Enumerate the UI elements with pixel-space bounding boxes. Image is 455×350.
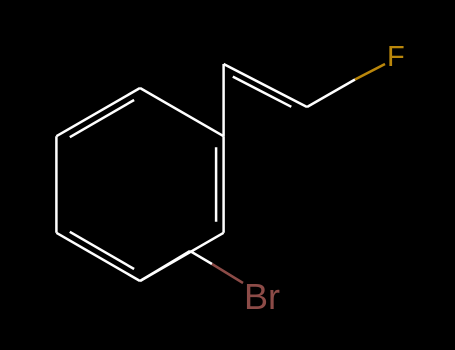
ring double bond inner line (top-left) bbox=[70, 100, 134, 137]
wire: bond CH2-Br bromine-colored half bbox=[212, 264, 243, 283]
wire: ring bond C1a-C6a (top-left edge) bbox=[56, 88, 140, 136]
atom label Br (bromine) bbox=[244, 276, 280, 318]
wire: double bond C1=C2 main line bbox=[224, 64, 307, 107]
wire: ring bond C4a-C3a (bottom-right edge) bbox=[140, 233, 224, 281]
wire: bond C2-F fluorine-colored half bbox=[355, 64, 385, 80]
wire: single bond ring C4a to CH2 bbox=[140, 251, 190, 281]
wire: bond C2-F white half bbox=[307, 80, 355, 108]
wire: double bond C1=C2 second line bbox=[233, 77, 291, 107]
wire: ring bond C6a-C5a (left edge) bbox=[55, 136, 58, 233]
ring double bond inner line (bottom-left) bbox=[70, 232, 134, 269]
wire: ring bond C2a-C1a (top-right edge) bbox=[140, 88, 224, 136]
wire: ring bond C3a-C2a (right edge) bbox=[222, 136, 225, 233]
wire: bond CH2-Br white half bbox=[190, 251, 212, 264]
wire: ring bond C5a-C4a (bottom-left edge) bbox=[56, 233, 140, 281]
wire: single bond ring C2a to C1 (vertical) bbox=[222, 64, 225, 136]
atom label F (fluorine) bbox=[387, 41, 405, 74]
ring double bond inner line (right) bbox=[215, 147, 218, 221]
